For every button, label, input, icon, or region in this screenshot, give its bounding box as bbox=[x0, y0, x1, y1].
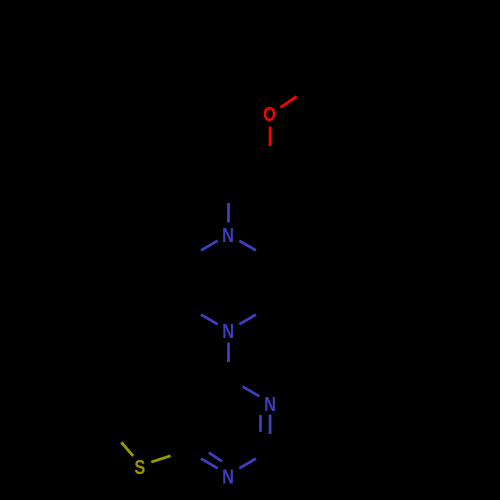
bond piperazine Ntop - C upper-left (N half) bbox=[201, 241, 218, 251]
svg-text:O: O bbox=[263, 103, 276, 126]
bond piperazine Ntop - C upper-right (N half) bbox=[239, 241, 256, 251]
bond Nbot - C4 link (N half) bbox=[227, 343, 230, 363]
double bond N1=C8a inner line (N half) bbox=[209, 453, 222, 462]
svg-text:S: S bbox=[134, 455, 145, 478]
bond piperazine Nbot - C right (N half) bbox=[239, 315, 256, 325]
double bond N3=C2 inner line (N half) bbox=[259, 415, 262, 432]
double bond N1=C8a main line (N half) bbox=[201, 459, 218, 469]
bond N3 - C4 (N half) bbox=[243, 387, 260, 397]
bond O-CH2 chain (O half) bbox=[269, 127, 272, 147]
svg-text:N: N bbox=[222, 320, 234, 343]
bond S - C6 thiophene (S half) bbox=[121, 442, 133, 456]
svg-text:N: N bbox=[222, 224, 234, 247]
bond piperazine Nbot - C left (N half) bbox=[201, 315, 218, 325]
bond N-CH2 chain (N half) bbox=[227, 203, 230, 223]
double bond N3=C2 main line (N half) bbox=[269, 415, 272, 435]
svg-text:N: N bbox=[264, 392, 276, 415]
bond N1 - C2 (N half) bbox=[239, 459, 256, 469]
bond O-CH3 methyl (O half) bbox=[280, 96, 296, 107]
svg-text:N: N bbox=[222, 465, 234, 488]
bond S - C8a (S half) bbox=[151, 456, 170, 462]
